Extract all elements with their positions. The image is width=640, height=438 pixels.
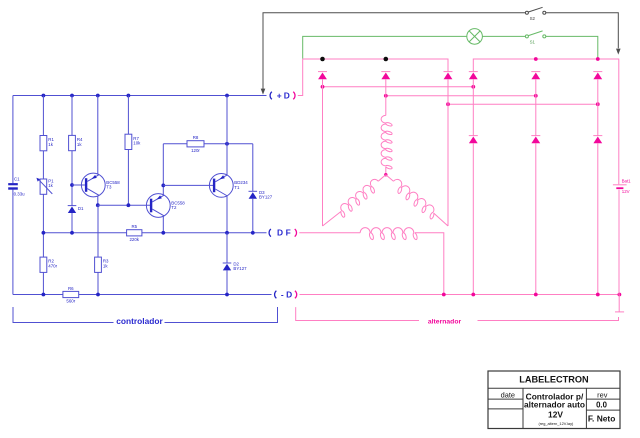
wire R3 column bbox=[97, 205, 99, 257]
node DF row junctions bbox=[42, 231, 46, 235]
svg-text:rev: rev bbox=[597, 390, 608, 399]
svg-text:R6: R6 bbox=[68, 286, 74, 291]
wire R3 to bottom rail bbox=[97, 272, 99, 294]
stator winding L2 (top leg) bbox=[385, 96, 387, 116]
wire R4 to base node bbox=[71, 151, 73, 206]
wire S1 to right rail (green) bbox=[546, 36, 598, 58]
transistor T3 BC558 bbox=[81, 173, 105, 197]
node +D terminal bbox=[270, 92, 272, 100]
svg-text:alternador: alternador bbox=[428, 319, 462, 326]
svg-text:R8: R8 bbox=[193, 135, 199, 140]
node rail junction diode D4 bbox=[320, 57, 325, 62]
wire T3 base bbox=[72, 184, 85, 186]
wire field return bbox=[415, 233, 444, 295]
node controlador bracket bbox=[13, 307, 114, 323]
node T1 base junction bbox=[161, 184, 165, 188]
svg-text:BY127: BY127 bbox=[233, 266, 247, 271]
node title block frame bbox=[488, 371, 620, 429]
resistor R2 bbox=[42, 233, 44, 257]
lamp L1 bbox=[467, 29, 483, 45]
wire rail to lamp (green) bbox=[303, 36, 467, 58]
node DF terminal bbox=[269, 229, 271, 237]
battery BAT1 12V bbox=[613, 184, 627, 186]
wire diode D7 column bbox=[472, 79, 474, 135]
diode D8 rectifier (top row) bbox=[531, 71, 540, 73]
svg-text:+D: +D bbox=[277, 90, 292, 100]
svg-text:LABELECTRON: LABELECTRON bbox=[519, 374, 589, 384]
wire lamp to S1 bbox=[482, 35, 525, 37]
wire T2 emitter / T1 base column bbox=[162, 144, 164, 195]
svg-text:D1: D1 bbox=[78, 206, 84, 211]
wire T3 emitter to rail bbox=[97, 96, 99, 175]
wire phase U row bbox=[323, 86, 474, 88]
svg-text:date: date bbox=[501, 391, 515, 400]
wire phase V row bbox=[386, 95, 536, 97]
potentiometer P1 bbox=[40, 179, 47, 194]
diode D7 rectifier (top row) bbox=[469, 71, 478, 73]
resistor R6 bbox=[63, 291, 79, 297]
node T3 base junction bbox=[70, 183, 74, 187]
wire D3 anode to DF row bbox=[252, 199, 254, 233]
field winding L5 rotor bbox=[360, 228, 417, 240]
svg-text:S2: S2 bbox=[530, 16, 536, 21]
svg-text:12V: 12V bbox=[622, 189, 630, 194]
wire T2 collector to DF row bbox=[162, 216, 164, 233]
wire DF to field winding bbox=[299, 232, 360, 234]
wire diode D4 column to stator bbox=[322, 79, 324, 226]
wire T1 base row bbox=[163, 184, 213, 186]
svg-text:alternador auto: alternador auto bbox=[524, 400, 585, 410]
node rail junction diode D5 bbox=[384, 57, 389, 62]
ground chassis stub bbox=[618, 295, 620, 312]
diode D1 bbox=[68, 205, 77, 207]
node star point bbox=[384, 173, 387, 176]
wire diode D8 column bbox=[535, 79, 537, 135]
stator winding L3 (left leg) bbox=[378, 175, 386, 182]
wire T1 emitter to rail bbox=[226, 96, 228, 176]
resistor R8 bbox=[187, 141, 204, 147]
svg-text:1k: 1k bbox=[103, 264, 108, 269]
svg-text:controlador: controlador bbox=[116, 316, 163, 326]
resistor R4 bbox=[71, 96, 73, 136]
wire R7 to collector row bbox=[127, 150, 129, 206]
svg-text:1k: 1k bbox=[77, 142, 82, 147]
diode D2 BY127 bbox=[226, 233, 228, 263]
switch S2 bbox=[525, 11, 528, 14]
wire collector row to T2 base bbox=[98, 204, 151, 206]
svg-text:560r: 560r bbox=[66, 299, 75, 304]
wire D2 to bottom rail bbox=[226, 270, 228, 294]
wire D1 to DF row bbox=[71, 213, 73, 233]
node rail junctions bbox=[534, 57, 538, 61]
svg-text:R5: R5 bbox=[131, 224, 137, 229]
svg-text:470r: 470r bbox=[48, 264, 57, 269]
resistor R1 bbox=[42, 96, 44, 136]
wire T3 collector down bbox=[97, 196, 99, 206]
wire top +D rail bbox=[13, 95, 267, 97]
wire P1 to DF row bbox=[42, 194, 44, 233]
wire battery to bottom rail bbox=[618, 190, 620, 295]
node bottom rail junctions bbox=[442, 293, 446, 297]
node T3 collector bbox=[96, 203, 100, 207]
diode D12 field trio (lower row) bbox=[593, 135, 602, 137]
wire +D to S2 (black) bbox=[263, 13, 525, 93]
wire -D bottom rail (pink) bbox=[300, 294, 620, 296]
wire S2 to battery rail (black) bbox=[546, 13, 618, 48]
transistor T1 BD234 bbox=[209, 174, 233, 198]
transistor T2 BC558 bbox=[146, 194, 170, 218]
svg-text:T2: T2 bbox=[171, 205, 177, 210]
wire R1 to P1 bbox=[42, 151, 44, 179]
diode D10 field trio (lower row) bbox=[469, 135, 478, 137]
svg-text:12V: 12V bbox=[548, 409, 563, 419]
wire +D top rail (left) bbox=[303, 59, 448, 72]
wire DF row bbox=[43, 232, 126, 234]
resistor R7 bbox=[127, 96, 129, 135]
svg-text:10k: 10k bbox=[133, 141, 141, 146]
node alternador bracket bbox=[296, 307, 419, 320]
svg-text:T3: T3 bbox=[106, 185, 112, 190]
svg-text:1k: 1k bbox=[48, 183, 53, 188]
diode D3 BY127 bbox=[252, 144, 254, 192]
switch S1 bbox=[525, 35, 528, 38]
node -D terminal bbox=[275, 291, 277, 299]
svg-text:F. Neto: F. Neto bbox=[588, 414, 615, 424]
wire diode D9 column bbox=[597, 79, 599, 135]
svg-text:BY127: BY127 bbox=[259, 195, 273, 200]
capacitor C1 bbox=[8, 183, 18, 185]
svg-text:0.33u: 0.33u bbox=[14, 191, 26, 196]
svg-text:Bat1: Bat1 bbox=[622, 179, 632, 184]
diode D9 rectifier (top row) bbox=[593, 71, 602, 73]
wire R8 row right bbox=[204, 143, 253, 145]
svg-text:DF: DF bbox=[277, 228, 293, 238]
svg-text:220k: 220k bbox=[129, 237, 139, 242]
resistor R3 bbox=[95, 257, 102, 272]
svg-text:0.0: 0.0 bbox=[596, 400, 608, 409]
svg-text:T1: T1 bbox=[234, 185, 240, 190]
svg-text:1k: 1k bbox=[48, 142, 53, 147]
diode D6 rectifier (top row) bbox=[444, 71, 453, 73]
diode D11 field trio (lower row) bbox=[531, 135, 540, 137]
wire bottom -D rail bbox=[13, 294, 272, 296]
wire R8 row left bbox=[163, 143, 187, 145]
diode D4 rectifier (top row) bbox=[318, 71, 327, 73]
svg-text:120r: 120r bbox=[191, 148, 200, 153]
node top rail junctions bbox=[42, 94, 46, 98]
resistor R5 bbox=[127, 230, 142, 236]
wire phase W row bbox=[448, 103, 598, 105]
svg-text:C1: C1 bbox=[14, 177, 20, 182]
wire diode D5 column bbox=[385, 79, 387, 96]
wire diode D6 column to stator bbox=[447, 79, 449, 226]
svg-text:(reg_altern_12V.lay): (reg_altern_12V.lay) bbox=[538, 421, 574, 426]
stator winding L4 (right leg) bbox=[386, 175, 394, 182]
svg-text:-D: -D bbox=[281, 290, 295, 300]
wire left column bbox=[12, 96, 14, 184]
svg-text:S1: S1 bbox=[530, 39, 536, 44]
wire battery top rail (right) bbox=[473, 59, 619, 184]
diode D5 rectifier (top row) bbox=[381, 71, 390, 73]
wire +D to alternator rail bbox=[298, 59, 303, 96]
wire R2 to bottom bbox=[42, 272, 44, 294]
wire T1 collector to DF row bbox=[226, 196, 228, 233]
node bottom rail junctions bbox=[42, 293, 46, 297]
